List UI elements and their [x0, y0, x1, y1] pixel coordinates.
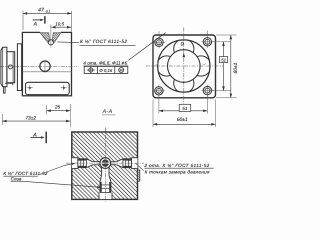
svg-text:А-А: А-А — [102, 109, 113, 115]
conical port: vertical axis line — [50, 25, 52, 48]
lobe circle W — [157, 56, 177, 76]
svg-text:10,5: 10,5 — [55, 21, 64, 26]
spacer ring (tall thin rect) — [17, 44, 21, 91]
left channel cavity — [93, 162, 101, 165]
section vertical centre line — [104, 128, 106, 202]
dim 25: right extension — [69, 104, 71, 127]
knob middle block — [7, 52, 15, 83]
svg-text:4 отв. Ф6,6, Ф11∗6: 4 отв. Ф6,6, Ф11∗6 — [83, 60, 127, 65]
side view: horizontal centre line — [0, 65, 77, 67]
dim 47-0.1: right arrow — [67, 12, 71, 15]
dim 60±1 horizontal: arrows — [153, 123, 157, 126]
dim 25: left extension — [46, 105, 48, 115]
position symbol — [89, 68, 93, 72]
callout leader to top-left bolt hole — [128, 33, 165, 61]
left port thread cavity — [78, 159, 87, 168]
svg-text:-0,1: -0,1 — [45, 9, 51, 13]
dim 51 vertical: boxed value — [219, 57, 227, 63]
svg-text:К ⅛" ГОСТ 6111-52: К ⅛" ГОСТ 6111-52 — [80, 39, 127, 44]
flange view: vertical centre line — [183, 28, 185, 105]
ext line BR hole centre to right — [212, 90, 231, 92]
bottom counterbore cavity — [99, 193, 112, 200]
ext line BR hole down — [206, 96, 208, 114]
bottom plate screw right — [63, 87, 65, 89]
bottom thread lines — [99, 182, 101, 193]
bottom plate screw left — [29, 87, 31, 89]
knob disc inner line — [2, 47, 4, 87]
conical port: right hatched wedge — [52, 33, 60, 43]
ext line TR hole centre to right — [212, 41, 231, 43]
tiny mark west — [156, 64, 159, 65]
flange view: horizontal centre line — [146, 65, 223, 67]
svg-text:А: А — [33, 22, 38, 28]
left port cone cavity — [86, 159, 92, 168]
knob lock pin (bottom) — [4, 87, 6, 93]
dim 51 horizontal: line — [159, 110, 208, 112]
side view: valve body block outline — [22, 32, 71, 95]
dim 51 horizontal: boxed value — [179, 104, 191, 111]
vertical channel lines — [101, 164, 103, 176]
svg-text:Слив: Слив — [11, 177, 22, 182]
flange inner circle — [168, 50, 201, 83]
side view: parting line across block — [22, 71, 71, 73]
dim 47-0.1: left extension line — [22, 11, 24, 30]
knob middle block step line — [12, 52, 14, 83]
right face tab (plug) — [138, 170, 140, 181]
section marker A top: plane tick — [44, 16, 46, 23]
left port cone lines — [86, 159, 92, 162]
left port thread lines — [78, 158, 87, 160]
dim 25: arrows — [47, 109, 51, 112]
dim 73±2: arrows — [2, 120, 6, 123]
vertical channel cavity — [102, 163, 109, 176]
ext line from square right down — [215, 100, 217, 128]
dim 51 horizontal: arrows — [159, 110, 163, 113]
right port counterbore cavity — [132, 158, 138, 169]
central bore spool (dark) — [102, 159, 109, 166]
top-left hole centreline up — [158, 31, 160, 36]
dim 60±1 vertical: arrows — [230, 35, 233, 39]
conical port K1/8 on top face: opening gap — [40, 31, 61, 33]
dim 47-0.1: left arrow — [23, 12, 27, 15]
bottom counterbore lines — [98, 193, 100, 200]
dim 10,5: dimension line — [51, 26, 71, 28]
conical port: bottom circle — [48, 40, 53, 45]
conical port: left hatched wedge — [40, 33, 49, 43]
section horizontal centre line — [66, 162, 144, 164]
lobe circle E — [191, 56, 211, 76]
dim 73±2: line — [2, 120, 70, 122]
leader to bottom port (sliv) — [22, 181, 99, 187]
dim 51 vertical: line — [223, 42, 225, 91]
lobe circle S — [174, 73, 194, 93]
bolt hole bottom-right — [203, 86, 211, 94]
ext line from square bottom to right — [216, 97, 237, 99]
leader to left port (drain text) — [39, 166, 65, 175]
dim 51 vertical: arrows — [222, 42, 225, 46]
MMC modifier M in circle — [119, 68, 124, 73]
left channel lines — [93, 161, 101, 163]
right port thread cavity — [123, 159, 132, 168]
svg-text:25: 25 — [54, 105, 61, 111]
right channel cavity — [110, 162, 117, 165]
central bore slit — [102, 163, 109, 164]
svg-text:К точкам замера давления: К точкам замера давления — [145, 170, 210, 175]
svg-text:0: 0 — [181, 42, 184, 48]
position tolerance frame — [84, 66, 128, 73]
dim 10,5: right arrow — [67, 26, 71, 29]
tiny mark east — [203, 64, 206, 65]
svg-text:51: 51 — [182, 106, 188, 111]
knob disc (side view, chamfered) — [1, 47, 7, 87]
top-right hole centreline up — [206, 31, 208, 36]
bottom thread cavity — [100, 182, 111, 193]
right port cone cavity — [117, 159, 123, 168]
side hole vertical crosshair — [44, 60, 46, 73]
right port cone lines — [117, 159, 123, 162]
svg-text:60±1: 60±1 — [177, 117, 188, 123]
ext line BL hole down — [158, 96, 160, 114]
dim 60±1 vertical: line — [230, 35, 232, 98]
left port counterbore cavity — [72, 158, 78, 169]
section marker A bottom: arrow line — [30, 136, 43, 138]
svg-text:Ф 0,16: Ф 0,16 — [99, 68, 113, 73]
bolt hole top-right — [203, 38, 211, 46]
zero direction arrowhead — [183, 53, 186, 57]
right port thread lines — [123, 158, 132, 160]
dim 47-0.1: right extension line — [71, 11, 73, 32]
bottom cone lines — [100, 175, 102, 181]
section body: hatched square — [72, 132, 138, 199]
right channel lines — [110, 161, 117, 163]
svg-text:73±2: 73±2 — [25, 115, 36, 121]
svg-text:М: М — [120, 69, 123, 73]
svg-text:А: А — [32, 133, 37, 139]
svg-text:2 отв. К ⅛" ГОСТ 6111-52: 2 отв. К ⅛" ГОСТ 6111-52 — [143, 163, 209, 168]
lobe circle N — [174, 39, 194, 59]
side view: side hole circle — [40, 61, 50, 71]
svg-text:60±1: 60±1 — [233, 62, 239, 73]
section marker A bottom: plane tick — [45, 132, 47, 144]
dim 10,5: left arrow — [51, 26, 55, 29]
central bore outer circle — [100, 158, 111, 169]
svg-text:К ⅛" ГОСТ 6111-52: К ⅛" ГОСТ 6111-52 — [3, 171, 48, 176]
ext line from square top to right — [216, 34, 237, 36]
flange view: square plate outline — [153, 35, 216, 98]
dim 73±2: left extension — [1, 114, 3, 125]
bottom cone cavity — [100, 175, 111, 181]
dim 47-0.1: dimension line — [23, 12, 72, 14]
ext line from square left down — [152, 100, 154, 128]
bolt hole top-left — [155, 38, 163, 46]
leader to conical port — [57, 41, 79, 44]
section marker A top: arrow line — [33, 19, 43, 21]
dim 25: line — [47, 110, 71, 112]
right port counterbore lines — [132, 157, 138, 159]
knob small hole — [8, 65, 12, 69]
svg-text:51: 51 — [221, 57, 226, 62]
bolt hole bottom-left — [155, 87, 163, 95]
side view: bottom cover plate — [26, 82, 70, 94]
left port counterbore lines — [72, 157, 78, 159]
flange bore outer circle — [158, 40, 210, 92]
leader to right port (2 otv) — [136, 163, 144, 170]
dim 60±1 horizontal: line — [153, 123, 216, 125]
